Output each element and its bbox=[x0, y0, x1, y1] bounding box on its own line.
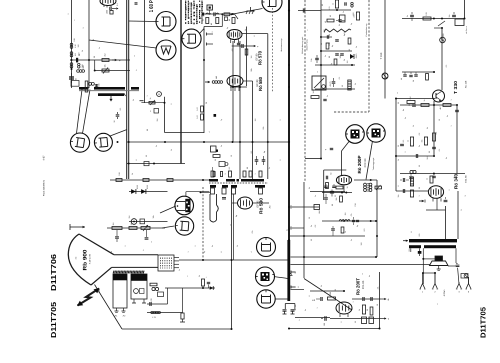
cap h (417,156) bbox=[416, 154, 417, 158]
svg-text:3: 3 bbox=[464, 195, 467, 196]
svg-text:D11T705: D11T705 bbox=[49, 302, 58, 338]
svg-text:50: 50 bbox=[397, 102, 400, 104]
chassis bar row1 seg3 bbox=[131, 87, 139, 90]
transistor small (442.5,40) bbox=[440, 37, 446, 43]
wire y=207 bbox=[292, 206, 319, 208]
svg-text:100: 100 bbox=[77, 45, 80, 48]
res v (426,141) bbox=[421, 137, 428, 145]
svg-text:220: 220 bbox=[352, 13, 355, 16]
wire pointer to V10b bbox=[162, 226, 174, 228]
wire y=288 bbox=[165, 287, 215, 289]
wire V6 to chain bbox=[233, 9, 263, 15]
svg-text:120: 120 bbox=[425, 12, 428, 15]
wire flyback diagonal bbox=[304, 279, 352, 311]
wire vertical x=203 dashed bbox=[202, 187, 204, 260]
svg-text:h: h bbox=[298, 319, 301, 320]
svg-text:1n: 1n bbox=[98, 47, 101, 49]
speaker bbox=[430, 256, 449, 270]
wire y=132.5 bbox=[165, 132, 205, 134]
yoke coil A2 bbox=[131, 274, 147, 303]
wire y=318.5 bbox=[330, 318, 376, 320]
IF box (342,18) bbox=[340, 15, 346, 22]
terminal fork 4 bbox=[456, 282, 462, 294]
box on y221 bbox=[140, 219, 145, 224]
svg-text:7p: 7p bbox=[220, 119, 223, 121]
svg-text:50: 50 bbox=[214, 159, 217, 161]
svg-text:b: b bbox=[135, 70, 138, 71]
svg-text:400: 400 bbox=[231, 49, 234, 52]
res row above barA 5 bbox=[259, 171, 262, 177]
svg-text:4k7: 4k7 bbox=[439, 106, 442, 109]
svg-text:30: 30 bbox=[310, 239, 313, 241]
cap (454,16) bbox=[448, 12, 456, 18]
svg-text:10: 10 bbox=[328, 34, 331, 36]
notes text block bbox=[185, 1, 203, 25]
svg-text:1n: 1n bbox=[220, 145, 223, 147]
tube V9 (184.2,205.5) bbox=[175, 196, 194, 215]
tuner box bbox=[312, 76, 332, 90]
svg-text:8: 8 bbox=[308, 296, 311, 297]
svg-text:L: L bbox=[205, 277, 208, 278]
wire vertical x=434 bbox=[433, 101, 435, 156]
svg-text:Rö 200T: Rö 200T bbox=[356, 278, 361, 295]
svg-text:1n: 1n bbox=[294, 305, 297, 307]
caps CD y221 bbox=[350, 213, 359, 225]
wire vertical x=233 bbox=[232, 41, 234, 142]
svg-text:2: 2 bbox=[448, 190, 451, 191]
cap black sq bbox=[214, 114, 217, 117]
svg-text:5: 5 bbox=[340, 322, 343, 323]
terminal arrow 4 bbox=[381, 298, 390, 302]
coil pair (413,172) bbox=[410, 170, 416, 173]
svg-text:50: 50 bbox=[78, 54, 81, 56]
svg-text:10: 10 bbox=[230, 155, 233, 157]
wire y=60 bbox=[70, 59, 130, 61]
res h (339,188) bbox=[336, 186, 343, 189]
terminal fork 6 bbox=[465, 277, 471, 294]
res (425,105) bbox=[421, 99, 429, 106]
wire main bus x=289 bbox=[288, 0, 290, 240]
tube V3 (80,142.6) bbox=[70, 133, 90, 152]
svg-text:5: 5 bbox=[170, 104, 173, 105]
svg-text:m3: m3 bbox=[75, 257, 78, 260]
wire y=210 bbox=[426, 209, 446, 211]
chain sub res bbox=[202, 18, 209, 24]
label Rb900 bbox=[75, 249, 92, 270]
crystal box bbox=[207, 5, 212, 14]
svg-text:0.1: 0.1 bbox=[250, 151, 253, 154]
box col b1 bbox=[362, 317, 374, 324]
tube C13 (266,299) bbox=[257, 290, 275, 308]
svg-text:L30: L30 bbox=[323, 29, 326, 32]
res stack b bbox=[196, 114, 203, 120]
svg-text:2: 2 bbox=[404, 152, 407, 153]
chain drop bbox=[221, 14, 223, 26]
tube V4 (103.4,142.3) bbox=[94, 133, 112, 151]
notes col right edge bbox=[465, 26, 468, 34]
wire y=173.5 right bbox=[400, 173, 465, 175]
cap right of E2 bbox=[231, 44, 259, 52]
wire y=87 tube pins bbox=[230, 86, 247, 88]
svg-text:5k: 5k bbox=[308, 187, 311, 189]
svg-text:2k: 2k bbox=[320, 285, 323, 287]
flyback core bar bbox=[287, 240, 290, 301]
wire y=312.5 bbox=[147, 312, 183, 314]
caps y173 b bbox=[432, 174, 436, 178]
junction dots main bbox=[117, 9, 437, 292]
wire y=18.5 top right bbox=[402, 18, 465, 20]
speaker wire left bbox=[422, 248, 435, 284]
cap (331.5,149) bbox=[325, 148, 333, 151]
end box (459.5,22) bbox=[455, 18, 466, 26]
wire diagonal C8 to V9 box bbox=[366, 142, 372, 180]
chain cap a bbox=[202, 12, 203, 16]
output transformer secondary bar L bbox=[409, 245, 421, 248]
cap (402,145) bbox=[400, 144, 404, 145]
svg-text:1: 1 bbox=[203, 30, 206, 31]
res below wire142 a bbox=[211, 146, 219, 152]
IF wire y=37 bbox=[322, 35, 332, 39]
flyback cap left bbox=[283, 310, 287, 314]
svg-text:OA70: OA70 bbox=[355, 54, 358, 59]
svg-text:25: 25 bbox=[397, 145, 400, 147]
sawtooth coil row bbox=[324, 29, 351, 32]
cap on y=304 bbox=[150, 297, 153, 306]
label T330 bbox=[453, 80, 468, 94]
striped res (412,193) bbox=[410, 190, 413, 197]
svg-text:a: a bbox=[134, 56, 136, 57]
svg-text:1k: 1k bbox=[244, 29, 247, 31]
svg-text:2n: 2n bbox=[155, 145, 158, 147]
wire y=260 CRT socket bbox=[179, 259, 290, 261]
arrow (420,201) bbox=[419, 200, 425, 203]
svg-text:1M: 1M bbox=[250, 55, 253, 58]
resistor E1 bbox=[106, 10, 114, 14]
transistor T310 circle bbox=[382, 73, 388, 79]
tube E7 (344,308) bbox=[336, 302, 352, 317]
svg-text:1n: 1n bbox=[178, 269, 181, 271]
label A3 bbox=[269, 205, 272, 208]
wire y=142 long bbox=[127, 141, 290, 143]
svg-text:Fernbedienung: Fernbedienung bbox=[365, 24, 368, 37]
svg-text:8: 8 bbox=[220, 252, 223, 253]
svg-text:25: 25 bbox=[408, 104, 411, 106]
svg-text:Tastenaggregat: Tastenaggregat bbox=[372, 157, 375, 170]
tube C5 (191.5,38.7) bbox=[182, 29, 201, 48]
svg-text:1k: 1k bbox=[407, 140, 410, 142]
svg-text:5: 5 bbox=[320, 80, 323, 81]
res boxes y180 bbox=[116, 179, 173, 182]
IF bar rowB seg3 bbox=[231, 185, 237, 188]
svg-text:PCL 85: PCL 85 bbox=[362, 280, 365, 289]
svg-text:50k: 50k bbox=[262, 126, 265, 129]
svg-text:5n: 5n bbox=[406, 15, 409, 17]
svg-text:P11S 32B BW71: P11S 32B BW71 bbox=[43, 179, 46, 196]
wire y=264.5 long bbox=[291, 264, 431, 266]
IF bar rowB seg2 bbox=[222, 185, 228, 188]
wire y=192 stub bbox=[200, 191, 211, 193]
cap (333,230) bbox=[331, 226, 335, 236]
svg-text:T 330: T 330 bbox=[453, 80, 458, 94]
cap (412,16) bbox=[406, 12, 414, 21]
dots right col bbox=[433, 104, 458, 157]
label 19 bbox=[346, 187, 349, 189]
wire funnel diagonal to bus bbox=[95, 285, 123, 330]
svg-text:ab Ser. w: ab Ser. w bbox=[465, 26, 468, 34]
svg-text:0.1: 0.1 bbox=[119, 108, 122, 111]
U-trace below barB 1 bbox=[210, 188, 236, 222]
svg-text:1k: 1k bbox=[397, 159, 400, 161]
svg-text:20: 20 bbox=[308, 217, 311, 219]
dot (376,257) bbox=[375, 256, 377, 258]
tube V1 (166,21.5) bbox=[156, 12, 176, 32]
svg-text:1k: 1k bbox=[344, 231, 347, 233]
label 2 node bbox=[286, 229, 288, 232]
svg-text:5: 5 bbox=[460, 209, 463, 210]
capacitor on y=60 bbox=[76, 54, 81, 62]
caps pair y160 bbox=[255, 156, 266, 165]
wire vertical x=164.5 bbox=[164, 97, 166, 133]
svg-text:1k: 1k bbox=[426, 178, 429, 180]
svg-text:15: 15 bbox=[376, 304, 379, 306]
svg-text:PCF 80: PCF 80 bbox=[364, 158, 367, 167]
svg-text:5p: 5p bbox=[226, 27, 229, 29]
svg-text:150: 150 bbox=[360, 243, 363, 246]
IF extra row y=20 bbox=[327, 15, 345, 22]
res y228 b bbox=[129, 227, 137, 230]
IF wire y=89 bbox=[315, 88, 355, 90]
svg-text:150: 150 bbox=[339, 56, 342, 59]
svg-text:2n: 2n bbox=[310, 225, 313, 227]
svg-text:2n: 2n bbox=[418, 145, 421, 147]
svg-text:60: 60 bbox=[228, 19, 231, 21]
wire y=192.5 bbox=[322, 192, 352, 194]
cap below y228 a bbox=[115, 230, 119, 242]
labels ZA bbox=[377, 286, 380, 289]
label 4-87 bbox=[43, 155, 46, 160]
resistor pot y=70.5 bbox=[102, 64, 109, 73]
res col v1 bbox=[362, 305, 373, 315]
svg-text:2: 2 bbox=[124, 246, 127, 247]
wire vertical x=231.5 bbox=[231, 187, 233, 329]
scatter tiny labels 2 bbox=[67, 4, 453, 323]
svg-text:22: 22 bbox=[334, 195, 337, 197]
label edition bbox=[43, 179, 46, 196]
diode row d2 bbox=[136, 185, 149, 194]
svg-text:50: 50 bbox=[246, 167, 249, 169]
flyback tap stub2 bbox=[291, 286, 296, 289]
res arrow (378,187.5) bbox=[375, 185, 382, 190]
svg-text:5k: 5k bbox=[338, 24, 341, 26]
svg-text:150: 150 bbox=[328, 42, 331, 45]
label Ro570 bbox=[255, 51, 262, 65]
svg-text:1n: 1n bbox=[314, 195, 317, 197]
svg-text:5n: 5n bbox=[75, 78, 78, 80]
tube C7 dark (355,134) bbox=[346, 125, 365, 144]
svg-text:L40: L40 bbox=[215, 76, 218, 79]
chain res c bbox=[224, 13, 230, 16]
chassis bar row2 bbox=[98, 93, 126, 101]
svg-text:6: 6 bbox=[297, 286, 300, 287]
res below wire142 b bbox=[213, 155, 220, 161]
extra dots bbox=[128, 18, 443, 331]
svg-text:5p: 5p bbox=[235, 215, 238, 217]
striped res (349.5,85) bbox=[348, 80, 351, 90]
svg-text:2M: 2M bbox=[128, 215, 131, 218]
res above y288 bbox=[198, 275, 213, 290]
chain sub box bbox=[225, 17, 228, 21]
cap (445.5,201) bbox=[444, 197, 448, 202]
res y228 c bbox=[141, 225, 150, 231]
IF dashed line y=183 bbox=[209, 182, 268, 184]
svg-text:x: x bbox=[74, 19, 76, 20]
wire y=228 left bbox=[107, 227, 165, 229]
res v (341,199) bbox=[335, 196, 342, 202]
res y228 a bbox=[112, 227, 122, 230]
wire x=167.5 drop bbox=[167, 288, 169, 304]
res (431,179) bbox=[426, 176, 434, 183]
svg-text:50: 50 bbox=[146, 129, 149, 131]
svg-text:30: 30 bbox=[113, 121, 116, 123]
svg-text:2n: 2n bbox=[268, 167, 271, 169]
svg-text:E250: E250 bbox=[136, 185, 139, 189]
svg-text:2M: 2M bbox=[156, 118, 159, 121]
CRT bell outline bbox=[68, 234, 91, 285]
svg-text:1: 1 bbox=[254, 174, 257, 175]
IF res (327,46) bbox=[326, 43, 329, 49]
svg-text:50: 50 bbox=[92, 39, 95, 41]
svg-text:1: 1 bbox=[450, 99, 453, 100]
chain cap b bbox=[214, 12, 215, 16]
svg-text:30: 30 bbox=[366, 309, 369, 311]
box (156,110.5) bbox=[150, 109, 159, 114]
svg-text:10: 10 bbox=[400, 78, 403, 80]
wire y=236 bbox=[290, 235, 365, 237]
IF caps (337,54) bbox=[335, 54, 344, 55]
wire vertical x=267.8 bbox=[242, 34, 268, 179]
scatter tiny labels bbox=[73, 19, 467, 321]
svg-text:40: 40 bbox=[202, 19, 205, 21]
svg-text:30: 30 bbox=[418, 165, 421, 167]
wire pointer to V10a bbox=[160, 206, 176, 213]
labels mid right bbox=[428, 132, 438, 153]
tube V2 heater (166,50) bbox=[156, 40, 176, 60]
svg-text:2: 2 bbox=[194, 246, 197, 247]
IF res (335.5,62) bbox=[334, 59, 337, 65]
wire y=28 bbox=[434, 27, 443, 29]
res stack a bbox=[196, 106, 203, 112]
wire diagonal V4 to bus bbox=[110, 130, 127, 137]
IF bar rowB seg4 bbox=[255, 185, 265, 188]
chain dot bbox=[221, 13, 223, 15]
svg-text:8: 8 bbox=[397, 186, 400, 187]
svg-text:50: 50 bbox=[412, 80, 415, 82]
svg-text:2: 2 bbox=[279, 120, 282, 121]
tube E1 (108,1) bbox=[100, 0, 116, 7]
svg-text:10n: 10n bbox=[310, 58, 313, 61]
svg-text:5k: 5k bbox=[426, 127, 429, 129]
dot (433.9,18.5) bbox=[433, 18, 435, 20]
chain dot2 bbox=[230, 13, 232, 15]
svg-text:7 kV: 7 kV bbox=[98, 288, 101, 293]
svg-text:x: x bbox=[187, 275, 189, 276]
cap h (404,191) bbox=[403, 189, 404, 193]
chassis bar gray underline bbox=[79, 90, 139, 92]
label 160P bbox=[149, 0, 155, 12]
wire vertical x=457 bbox=[456, 105, 458, 174]
coil circles pair bbox=[89, 82, 95, 85]
svg-text:2n: 2n bbox=[404, 117, 407, 119]
wire y=98.5 right bbox=[396, 98, 435, 100]
elcap (332,193) bbox=[330, 190, 337, 198]
svg-text:Rb 900: Rb 900 bbox=[83, 249, 89, 270]
svg-text:b: b bbox=[303, 70, 306, 71]
flyback tap stub1 bbox=[291, 271, 296, 274]
svg-text:0.1: 0.1 bbox=[438, 149, 441, 152]
svg-text:50: 50 bbox=[428, 151, 431, 153]
label AC128 col bbox=[442, 33, 445, 41]
coil L4 horizontal bbox=[77, 65, 85, 72]
wire vertical x=396 bbox=[395, 99, 397, 192]
svg-text:3n: 3n bbox=[446, 115, 449, 117]
svg-text:0.1: 0.1 bbox=[228, 167, 231, 170]
svg-text:b: b bbox=[142, 250, 145, 251]
wire vertical x=464.5 bbox=[464, 0, 466, 19]
svg-text:1 60 P: 1 60 P bbox=[149, 0, 155, 12]
wire double bus x=126.7/128.7 bbox=[127, 0, 129, 179]
svg-text:L31: L31 bbox=[328, 7, 331, 10]
coil on y=312.5 bbox=[151, 311, 161, 319]
wire y=102.7 bbox=[141, 102, 165, 104]
capacitor E1 bbox=[107, 3, 119, 10]
IF wire y=51 bbox=[321, 50, 352, 52]
wire diagonal to tube V1 bbox=[129, 20, 156, 23]
svg-text:40: 40 bbox=[324, 21, 327, 23]
svg-text:5p: 5p bbox=[330, 63, 333, 65]
wire y=191 to E6 bbox=[396, 190, 428, 192]
wire vertical x=385 bbox=[384, 0, 386, 99]
svg-text:560: 560 bbox=[82, 65, 85, 68]
tube E3 (235,81) bbox=[227, 76, 243, 92]
svg-text:4-87: 4-87 bbox=[43, 155, 46, 160]
wire y=304 bbox=[147, 303, 168, 305]
svg-text:D11T706: D11T706 bbox=[49, 254, 58, 291]
svg-text:a: a bbox=[151, 242, 153, 243]
wire diagonal to V7 bbox=[342, 142, 350, 176]
svg-text:3: 3 bbox=[224, 174, 227, 175]
svg-text:2k: 2k bbox=[343, 59, 346, 61]
wire vertical x=379.5 bbox=[379, 272, 381, 329]
svg-text:6: 6 bbox=[288, 170, 291, 171]
svg-text:k: k bbox=[194, 29, 197, 30]
svg-text:3n: 3n bbox=[304, 309, 307, 311]
svg-text:0.5: 0.5 bbox=[314, 225, 317, 228]
IF caps (337,40) bbox=[335, 40, 339, 41]
flyback under-bracket bbox=[285, 304, 295, 310]
svg-text:2p: 2p bbox=[350, 23, 353, 25]
IF bar rowA seg1 bbox=[209, 179, 218, 182]
terminal wire y=273 bbox=[423, 272, 436, 274]
svg-text:ZL: ZL bbox=[110, 251, 113, 253]
svg-text:c: c bbox=[307, 29, 309, 30]
svg-text:4: 4 bbox=[208, 132, 211, 133]
res (447,105) bbox=[443, 104, 451, 107]
svg-text:5: 5 bbox=[294, 272, 297, 273]
svg-text:50: 50 bbox=[334, 289, 337, 291]
wire diagonal bar to V3 a bbox=[77, 90, 83, 134]
res box y207 bbox=[314, 205, 320, 210]
svg-text:EF 80: EF 80 bbox=[255, 53, 258, 60]
